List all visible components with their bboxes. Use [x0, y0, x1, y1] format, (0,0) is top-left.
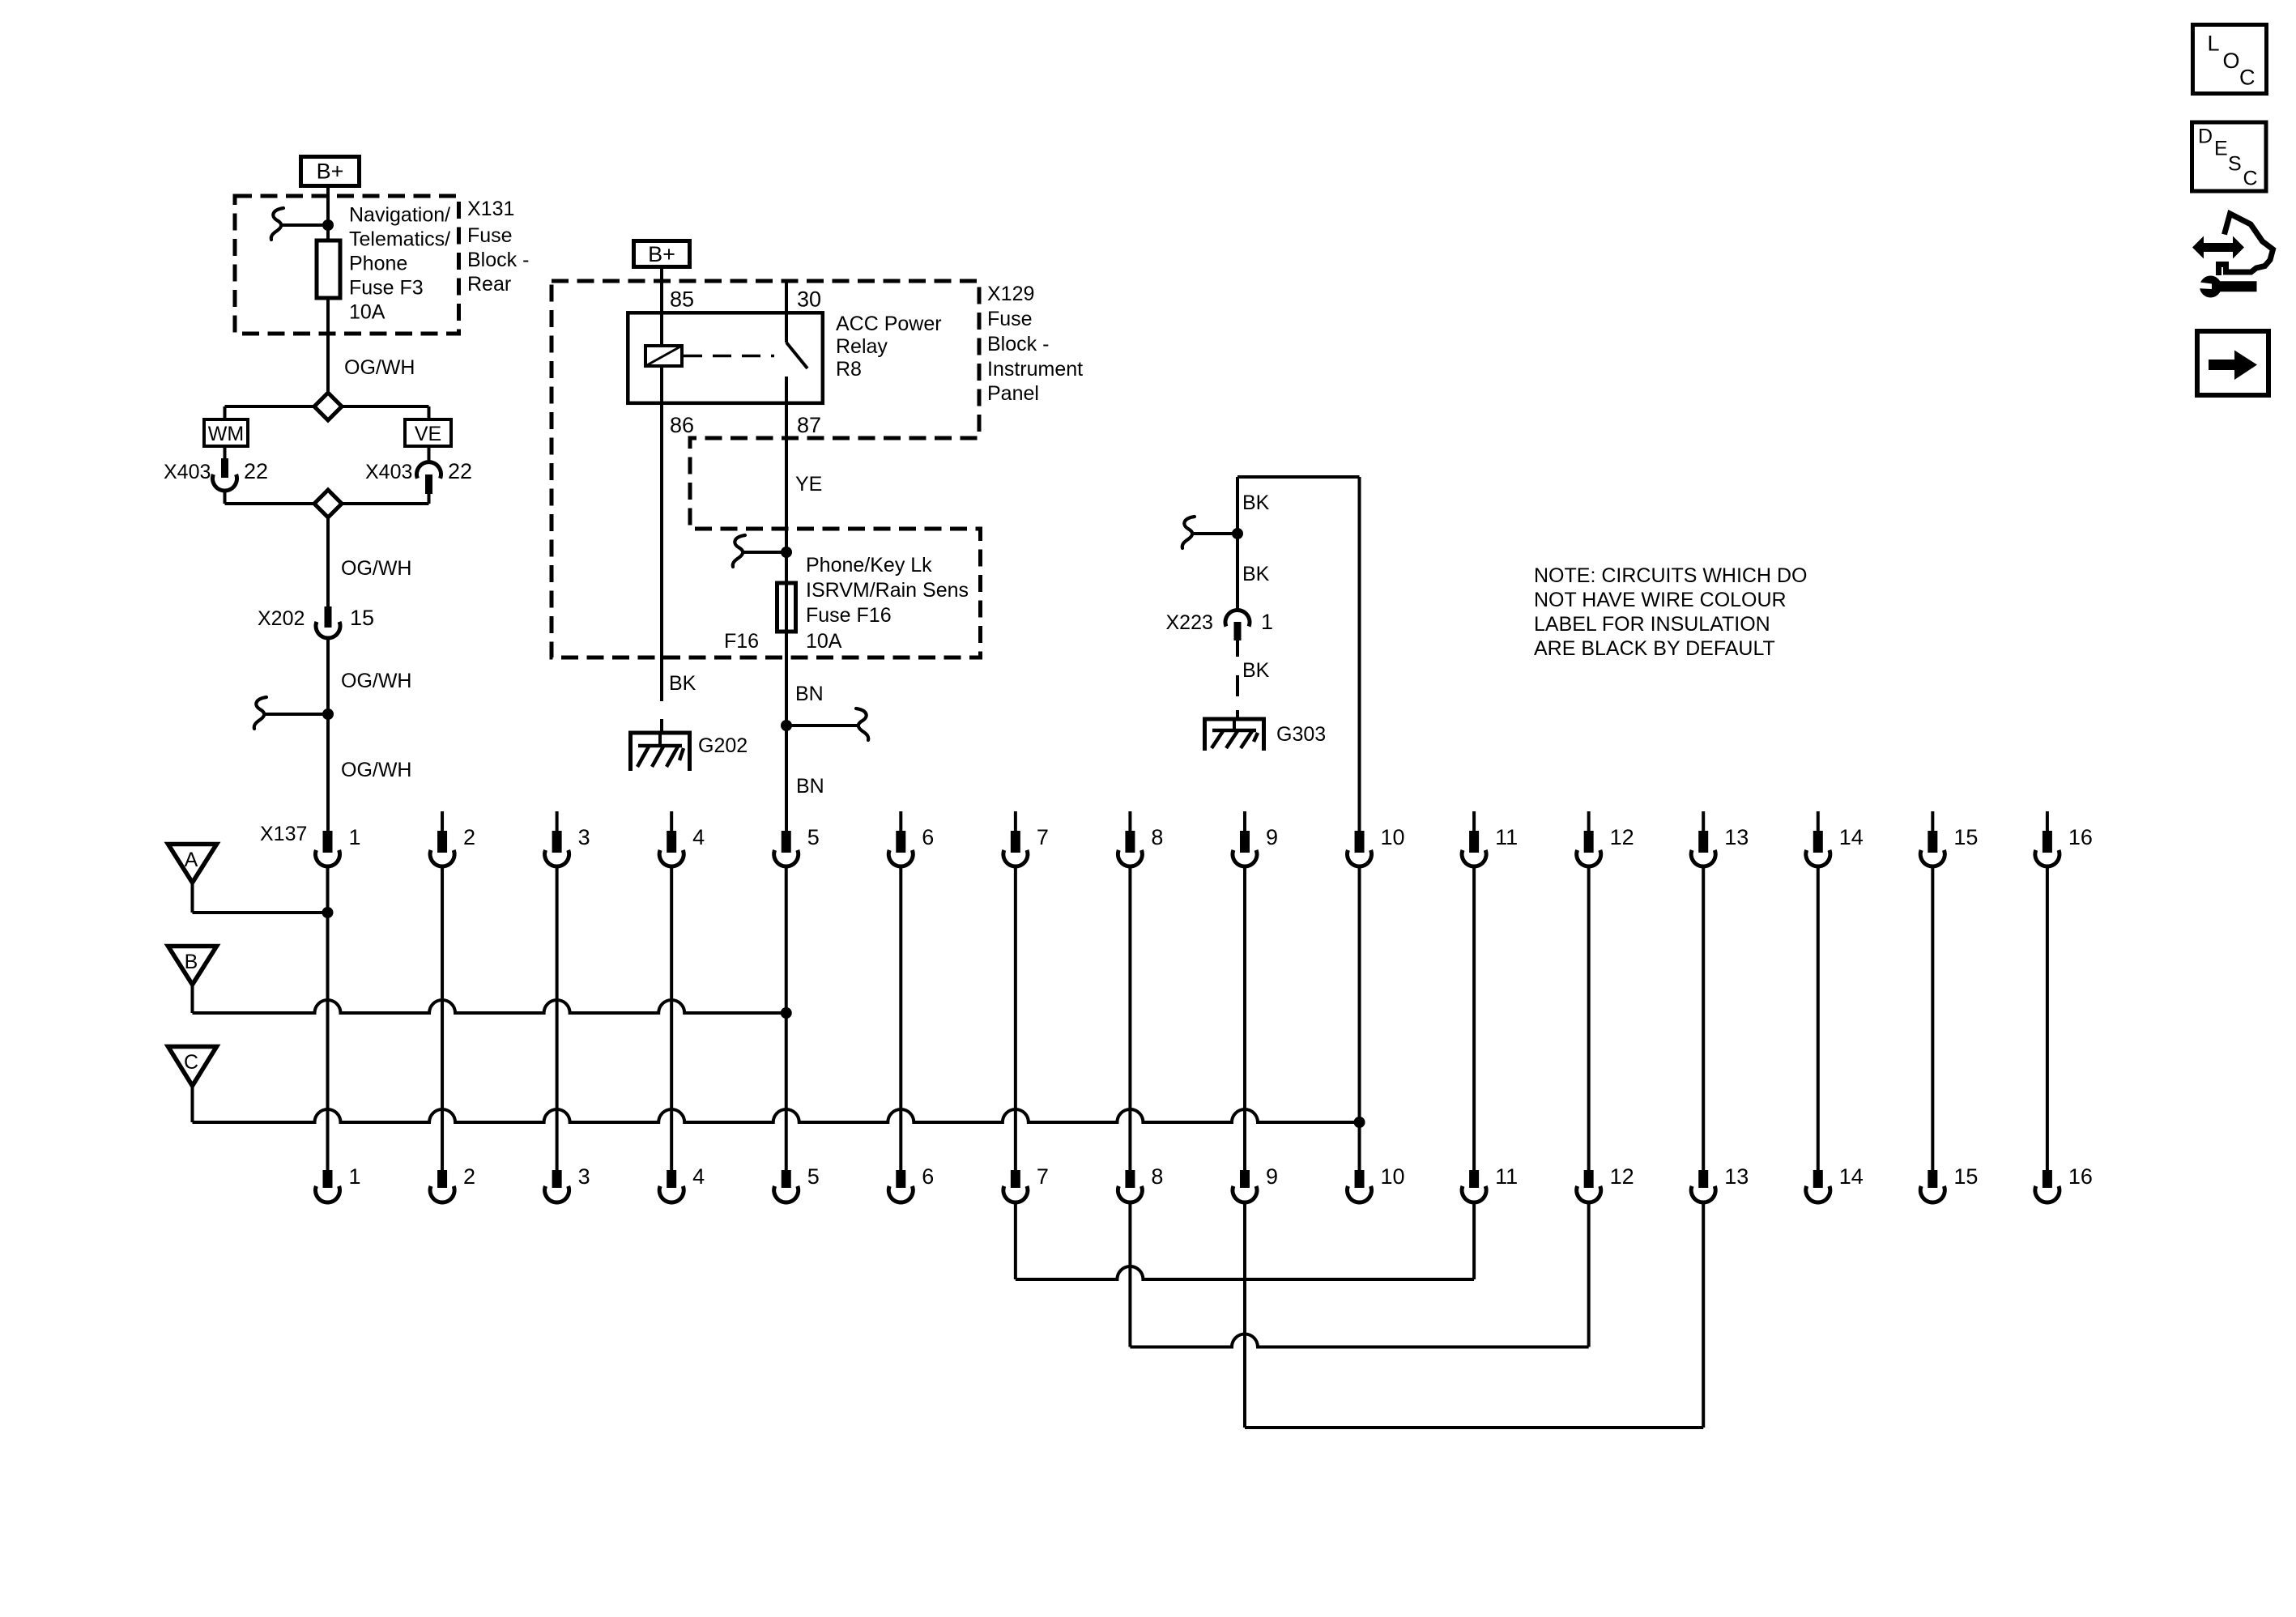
svg-text:Fuse F3: Fuse F3	[349, 277, 424, 300]
svg-text:E: E	[2214, 138, 2228, 160]
svg-text:10: 10	[1381, 1164, 1405, 1189]
svg-text:22: 22	[448, 459, 472, 483]
svg-text:LABEL FOR INSULATION: LABEL FOR INSULATION	[1534, 613, 1770, 636]
svg-text:5: 5	[807, 825, 820, 849]
wire B+ to fuse F3	[326, 188, 330, 240]
svg-text:B+: B+	[648, 242, 675, 266]
wire diamond to VE branch	[342, 405, 429, 408]
svg-text:15: 15	[1953, 825, 1978, 849]
connector X137 pin 12 (top row)	[1587, 811, 1591, 832]
svg-text:1: 1	[1261, 610, 1273, 634]
svg-text:G202: G202	[698, 734, 748, 757]
svg-text:86: 86	[670, 413, 694, 437]
wire stub with continuation clip (OG/WH splice)	[266, 713, 328, 716]
svg-text:22: 22	[244, 459, 268, 483]
svg-text:12: 12	[1610, 825, 1634, 849]
svg-text:X129: X129	[987, 283, 1034, 305]
svg-text:Fuse F16: Fuse F16	[806, 604, 892, 627]
svg-text:Block -: Block -	[467, 249, 529, 271]
connector X137 pin 14 (top row)	[1817, 811, 1820, 832]
wire relay pin 30	[785, 281, 788, 343]
fuse F16 10A	[777, 583, 796, 632]
svg-text:F16: F16	[724, 630, 759, 653]
svg-text:ISRVM/Rain Sens: ISRVM/Rain Sens	[806, 579, 969, 602]
relay coil-contact dashed link	[684, 355, 774, 358]
connector X137 pin 2 (top row)	[441, 811, 444, 832]
svg-text:15: 15	[1953, 1164, 1978, 1189]
svg-text:VE: VE	[415, 423, 441, 445]
svg-text:BK: BK	[1242, 491, 1270, 514]
module WM box	[204, 419, 248, 446]
connector X137 pin 5 (top row)	[782, 831, 791, 853]
power symbol B+ (middle)	[634, 241, 690, 267]
svg-text:B: B	[185, 951, 198, 973]
svg-text:B+: B+	[317, 160, 344, 184]
svg-text:13: 13	[1724, 1164, 1749, 1189]
svg-text:Fuse: Fuse	[467, 224, 513, 247]
svg-text:10A: 10A	[349, 301, 386, 324]
svg-text:Instrument: Instrument	[987, 358, 1083, 381]
relay switch blade	[786, 343, 807, 368]
wire splice to X137 pin 1	[326, 714, 330, 831]
svg-text:12: 12	[1610, 1164, 1634, 1189]
svg-text:14: 14	[1839, 1164, 1864, 1189]
power symbol B+ (left)	[301, 157, 360, 186]
svg-text:16: 16	[2068, 1164, 2093, 1189]
connector pin 2 (bottom row)	[437, 1170, 447, 1188]
svg-text:S: S	[2228, 153, 2242, 176]
connector pin 7 (bottom row)	[1011, 1170, 1020, 1188]
off-page connector B (triangle)	[168, 947, 217, 985]
svg-text:X223: X223	[1166, 611, 1213, 634]
svg-text:C: C	[184, 1051, 198, 1074]
svg-text:X131: X131	[467, 198, 514, 220]
node: splice on YE wire	[781, 547, 792, 558]
svg-text:OG/WH: OG/WH	[344, 356, 415, 379]
fuse F3 10A	[317, 240, 340, 298]
connector pin 5 (bottom row)	[782, 1170, 791, 1188]
wire coil to pin 86	[660, 366, 663, 405]
icon component-location (double arrow)	[2192, 236, 2244, 259]
svg-text:X403: X403	[365, 461, 412, 483]
node: splice on BN wire	[781, 720, 792, 731]
svg-text:Block -: Block -	[987, 333, 1049, 355]
connector X403 pin 22 (left female arc)	[212, 474, 236, 491]
svg-text:11: 11	[1495, 825, 1518, 849]
relay R8 box	[628, 313, 823, 403]
wire bottom pin8 to pin12 (hop at 9)	[1128, 1204, 1131, 1347]
connector pin 10 (bottom row)	[1355, 1170, 1365, 1188]
svg-text:C: C	[2243, 168, 2258, 190]
connector X403 pin 22 (right female arc)	[428, 448, 431, 462]
svg-text:10: 10	[1381, 825, 1405, 849]
svg-text:WM: WM	[208, 423, 244, 445]
svg-text:7: 7	[1037, 825, 1049, 849]
svg-text:YE: YE	[795, 473, 822, 496]
svg-text:7: 7	[1037, 1164, 1049, 1189]
svg-text:13: 13	[1724, 825, 1749, 849]
wire B to pin5 wire (hops pins 1-4)	[191, 985, 194, 1013]
connector X137 pin 3 (top row)	[556, 811, 559, 832]
wire X223 to G303 (dashed)	[1236, 640, 1239, 657]
connector pin 3 (bottom row)	[552, 1170, 562, 1188]
wire bottom pin9 to pin13	[1243, 1204, 1246, 1428]
svg-text:C: C	[2239, 66, 2256, 90]
connector X137 pin 15 (top row)	[1931, 811, 1934, 832]
svg-text:BK: BK	[669, 672, 696, 695]
node: splice junction	[322, 709, 334, 720]
connector pin 6 (bottom row)	[896, 1170, 905, 1188]
wire pin 86 down (BK to G202)	[660, 405, 663, 701]
relay coil	[645, 346, 682, 366]
connector X137 pin 13 (top row)	[1702, 811, 1705, 832]
connector pin 1 (bottom row)	[323, 1170, 333, 1188]
splice diamond (top)	[314, 393, 342, 420]
node: C junction on pin10 wire	[1354, 1117, 1365, 1128]
wire A to pin1 wire	[191, 883, 194, 913]
svg-text:30: 30	[797, 287, 821, 312]
svg-text:OG/WH: OG/WH	[341, 557, 412, 580]
connector pin 13 (bottom row)	[1698, 1170, 1708, 1188]
wire diamond to X202	[326, 517, 330, 607]
node: junction in X131	[322, 219, 334, 231]
svg-text:Relay: Relay	[836, 335, 888, 358]
svg-text:16: 16	[2068, 825, 2093, 849]
wire overhead BK to pin 10	[1237, 475, 1360, 479]
svg-text:NOTE: CIRCUITS WHICH DO: NOTE: CIRCUITS WHICH DO	[1534, 564, 1808, 587]
icon component-location (wrench)	[2200, 276, 2221, 298]
connector X137 pin 6 (top row)	[899, 811, 902, 832]
off-page connector A (triangle)	[168, 845, 217, 883]
svg-text:X403: X403	[164, 461, 211, 483]
svg-text:Phone: Phone	[349, 253, 407, 275]
svg-text:X202: X202	[258, 607, 305, 630]
ground G303	[1203, 717, 1266, 721]
connector X137 pin 4 (top row)	[670, 811, 673, 832]
svg-text:A: A	[185, 849, 198, 871]
svg-text:3: 3	[578, 1164, 590, 1189]
wire stub with continuation clip (BN splice)	[786, 724, 857, 727]
off-page connector C (triangle)	[168, 1047, 217, 1087]
svg-text:9: 9	[1266, 825, 1278, 849]
wire B+ to relay pin 85	[660, 269, 663, 311]
svg-text:ARE BLACK BY DEFAULT: ARE BLACK BY DEFAULT	[1534, 637, 1775, 660]
connector pin 11 (bottom row)	[1469, 1170, 1479, 1188]
connector X202 pin 15 (male pin)	[325, 606, 332, 628]
svg-text:X137: X137	[260, 823, 307, 845]
svg-text:6: 6	[922, 825, 934, 849]
connector X202 pin 15 (female arc)	[316, 622, 340, 638]
wire OG/WH fuse to splice diamond	[326, 298, 330, 394]
svg-text:1: 1	[349, 1164, 361, 1189]
svg-text:15: 15	[350, 606, 374, 630]
wire pin85 through relay to coil	[660, 311, 663, 346]
svg-text:BN: BN	[796, 775, 824, 798]
connector pin 12 (bottom row)	[1584, 1170, 1594, 1188]
svg-text:G303: G303	[1276, 723, 1326, 746]
connector X137 pin 10 (top row)	[1355, 831, 1365, 853]
svg-text:8: 8	[1151, 1164, 1163, 1189]
svg-text:BN: BN	[795, 683, 824, 705]
svg-text:85: 85	[670, 287, 694, 312]
connector pin 14 (bottom row)	[1813, 1170, 1823, 1188]
connector pin 15 (bottom row)	[1928, 1170, 1937, 1188]
connector X137 pin 1 (top row)	[323, 831, 333, 853]
svg-text:OG/WH: OG/WH	[341, 670, 412, 692]
svg-text:NOT HAVE WIRE COLOUR: NOT HAVE WIRE COLOUR	[1534, 589, 1787, 611]
svg-text:11: 11	[1495, 1164, 1518, 1189]
svg-text:Telematics/: Telematics/	[349, 228, 450, 251]
splice diamond (bottom)	[225, 502, 315, 505]
module VE box	[405, 419, 451, 446]
icon forward-arrow box	[2197, 331, 2268, 395]
fuse block X129 outline (dashed)	[552, 281, 981, 657]
ground G202	[628, 731, 692, 735]
node: A junction on pin1 wire	[322, 907, 334, 918]
svg-text:R8: R8	[836, 358, 862, 381]
wire BK down to clip junction	[1236, 477, 1239, 610]
svg-text:OG/WH: OG/WH	[341, 759, 412, 781]
wire pin 87 down YE	[785, 377, 788, 726]
connector pin 8 (bottom row)	[1125, 1170, 1135, 1188]
icon box LOC	[2193, 25, 2267, 94]
svg-text:Panel: Panel	[987, 382, 1039, 405]
wire WM arc to diamond	[224, 491, 227, 504]
connector X403 pin 22 (left male pin)	[224, 448, 227, 460]
connector X137 pin 9 (top row)	[1243, 811, 1246, 832]
wire stub with continuation clip (YE splice)	[744, 551, 786, 554]
svg-text:3: 3	[578, 825, 590, 849]
connector X137 pin 8 (top row)	[1128, 811, 1131, 832]
connector pin 9 (bottom row)	[1240, 1170, 1250, 1188]
wire diamond to WM branch	[225, 405, 315, 408]
svg-text:Fuse: Fuse	[987, 308, 1033, 330]
connector pin 16 (bottom row)	[2043, 1170, 2052, 1188]
wire X202 to splice	[326, 639, 330, 715]
wire C to pin10 wire (hops pins 1-9)	[191, 1086, 194, 1122]
svg-text:6: 6	[922, 1164, 934, 1189]
svg-text:O: O	[2223, 49, 2240, 73]
wire stub with continuation clip (X131)	[283, 223, 328, 227]
svg-text:Navigation/: Navigation/	[349, 204, 450, 227]
wire bottom pin7 to pin11 (hop at 8)	[1014, 1204, 1017, 1279]
wire BN to X137 pin 5	[785, 726, 788, 831]
svg-text:D: D	[2198, 126, 2213, 148]
svg-text:L: L	[2208, 32, 2220, 56]
icon component-location (car outline)	[2219, 214, 2273, 275]
svg-text:BK: BK	[1242, 659, 1270, 682]
svg-text:4: 4	[692, 825, 705, 849]
connector X137 pin 7 (top row)	[1014, 811, 1017, 832]
svg-text:ACC Power: ACC Power	[836, 313, 942, 335]
connector X403 pin 22 (right male pin)	[425, 474, 432, 494]
wire stub with continuation clip (BK)	[1194, 532, 1237, 535]
node: B junction on pin5 wire	[781, 1007, 792, 1019]
svg-text:14: 14	[1839, 825, 1864, 849]
svg-text:2: 2	[463, 1164, 475, 1189]
connector pin 4 (bottom row)	[667, 1170, 676, 1188]
connector X223 pin 1 (female arc)	[1225, 610, 1250, 626]
connector X137 pin 11 (top row)	[1472, 811, 1476, 832]
wire VE pin to diamond	[428, 494, 431, 504]
svg-text:1: 1	[349, 825, 361, 849]
svg-text:2: 2	[463, 825, 475, 849]
svg-text:4: 4	[692, 1164, 705, 1189]
node: junction on BK wire	[1232, 528, 1243, 539]
svg-text:Rear: Rear	[467, 273, 511, 296]
svg-text:5: 5	[807, 1164, 820, 1189]
icon box DESC	[2192, 122, 2267, 191]
fuse block X131 outline (dashed)	[235, 196, 459, 334]
connector X137 pin 16 (top row)	[2046, 811, 2049, 832]
svg-text:Phone/Key Lk: Phone/Key Lk	[806, 554, 932, 577]
svg-text:9: 9	[1266, 1164, 1278, 1189]
connector X223 pin 1 (male pin)	[1234, 622, 1242, 640]
svg-text:BK: BK	[1242, 563, 1270, 585]
svg-text:87: 87	[797, 413, 821, 437]
svg-text:8: 8	[1151, 825, 1163, 849]
svg-text:10A: 10A	[806, 630, 842, 653]
